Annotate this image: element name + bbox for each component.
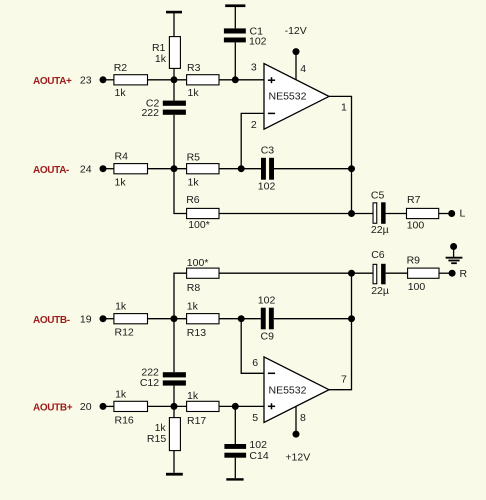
svg-text:23: 23 [80,75,92,87]
svg-text:R13: R13 [187,327,206,339]
svg-text:NE5532: NE5532 [269,385,307,397]
svg-text:222: 222 [141,107,159,119]
svg-text:102: 102 [249,36,267,48]
svg-text:C5: C5 [371,190,385,202]
svg-text:R9: R9 [407,255,421,267]
svg-text:8: 8 [300,412,306,424]
svg-text:1k: 1k [188,176,200,188]
svg-text:R4: R4 [115,151,129,163]
svg-text:1k: 1k [115,300,127,312]
svg-text:1k: 1k [155,53,167,65]
svg-text:R: R [460,268,468,280]
svg-text:4: 4 [300,63,306,75]
svg-text:102: 102 [258,181,276,193]
svg-text:1k: 1k [187,390,199,402]
svg-text:NE5532: NE5532 [269,91,307,103]
svg-text:R7: R7 [407,194,421,206]
svg-text:1k: 1k [188,87,200,99]
svg-text:1k: 1k [115,176,127,188]
svg-text:+12V: +12V [285,451,310,463]
svg-text:C3: C3 [261,145,275,157]
svg-text:7: 7 [341,374,347,386]
svg-text:6: 6 [252,357,258,369]
svg-text:100: 100 [408,281,426,293]
svg-text:19: 19 [80,314,92,326]
svg-text:22µ: 22µ [371,224,389,236]
svg-text:1k: 1k [115,389,127,401]
svg-text:R2: R2 [114,62,128,74]
svg-text:3: 3 [251,61,257,73]
svg-text:100*: 100* [188,219,210,231]
svg-text:1: 1 [341,101,347,113]
svg-text:AOUTB+: AOUTB+ [33,403,73,414]
svg-text:102: 102 [258,295,276,307]
svg-text:R3: R3 [187,62,201,74]
svg-text:1k: 1k [187,300,199,312]
svg-text:R12: R12 [115,326,134,338]
svg-text:AOUTB-: AOUTB- [33,315,70,326]
svg-text:1k: 1k [115,87,127,99]
svg-text:R15: R15 [147,433,166,445]
svg-text:C12: C12 [140,377,159,389]
svg-text:R6: R6 [186,194,200,206]
svg-text:R5: R5 [187,151,201,163]
svg-text:R16: R16 [115,414,134,426]
svg-text:24: 24 [80,164,92,176]
svg-text:R8: R8 [187,282,201,294]
svg-text:R17: R17 [187,415,206,427]
svg-text:AOUTA-: AOUTA- [33,165,69,176]
svg-text:5: 5 [252,412,258,424]
svg-text:L: L [460,208,466,220]
svg-text:AOUTA+: AOUTA+ [33,76,72,87]
svg-text:22µ: 22µ [371,285,389,297]
svg-text:100: 100 [407,219,425,231]
svg-text:20: 20 [80,401,92,413]
svg-text:C6: C6 [371,249,385,261]
svg-text:100*: 100* [187,257,209,269]
svg-text:C9: C9 [261,331,275,343]
svg-text:C14: C14 [249,450,268,462]
svg-text:-12V: -12V [285,25,307,37]
svg-text:2: 2 [251,119,257,131]
